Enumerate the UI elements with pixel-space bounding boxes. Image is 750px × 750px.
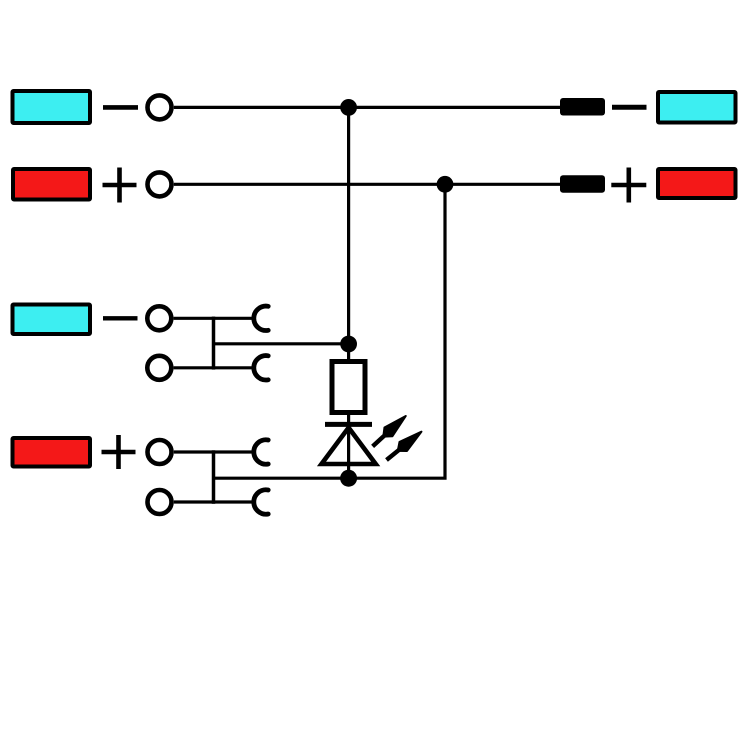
node junction J2	[437, 176, 454, 193]
terminal marker M1 (cyan, row 1 left)	[13, 91, 91, 123]
polarity sign minus (row 1 right)	[612, 105, 647, 110]
wire resistor to LED	[347, 412, 350, 478]
wire row4 upper	[174, 450, 214, 453]
resistor R1	[332, 362, 365, 413]
terminal marker M2 (cyan, row 1 right)	[658, 92, 736, 123]
bus bar tick row3	[212, 317, 216, 370]
test point circle (row 1)	[148, 95, 172, 119]
wire row3 middle to node	[214, 342, 349, 345]
polarity sign plus (row 2 right)	[611, 168, 646, 203]
bus bar tick row4	[212, 450, 216, 504]
polarity sign minus (row 3 left)	[103, 316, 138, 320]
wire row3 lower	[174, 366, 214, 369]
terminal marker M3 (red, row 2 left)	[13, 169, 90, 200]
LED light arrow 1	[369, 412, 410, 451]
test point circle (row 3 lower)	[147, 356, 171, 380]
node junction J4	[340, 470, 357, 487]
LED light arrow 2	[383, 427, 425, 464]
node junction J3	[340, 336, 357, 353]
wire row4 lower	[174, 500, 214, 503]
clamp contact row3 upper	[254, 306, 268, 330]
isolation link L1 (row 1 right)	[560, 98, 605, 116]
clamp contact row3 lower	[254, 356, 268, 380]
terminal marker M5 (cyan, row 3 left)	[13, 305, 91, 335]
wire from node J4 to node J2 (bottom and right vertical)	[349, 184, 445, 478]
LED D1 cathode bar	[325, 422, 372, 427]
clamp contact row4 upper	[254, 440, 268, 464]
LED D1 triangle	[322, 428, 376, 464]
wire stub row4 lower	[214, 500, 254, 503]
test point circle (row 2)	[148, 172, 172, 196]
wire stub row3 lower	[214, 366, 254, 369]
test point circle (row 4 lower)	[148, 490, 172, 514]
wire stub row4 upper	[214, 450, 254, 453]
terminal marker M4 (red, row 2 right)	[658, 169, 736, 198]
wire stub row3 upper	[214, 317, 254, 320]
clamp contact row4 lower	[254, 490, 268, 514]
wire vertical main (node J1 to resistor)	[347, 107, 350, 361]
terminal marker M6 (red, row 4 left)	[13, 438, 91, 467]
node junction J1	[340, 99, 357, 116]
polarity sign plus (row 2 left)	[103, 168, 137, 203]
test point circle (row 4 upper)	[148, 440, 172, 464]
wire row3 upper	[174, 317, 214, 320]
isolation link L2 (row 2 right)	[560, 175, 605, 193]
wire row2 horizontal	[174, 183, 560, 186]
wire row1 horizontal	[174, 106, 560, 109]
wire row4 middle to node	[214, 477, 349, 480]
test point circle (row 3 upper)	[147, 306, 171, 330]
polarity sign plus (row 4 left)	[102, 435, 136, 469]
polarity sign minus (row 1 left)	[103, 105, 138, 110]
